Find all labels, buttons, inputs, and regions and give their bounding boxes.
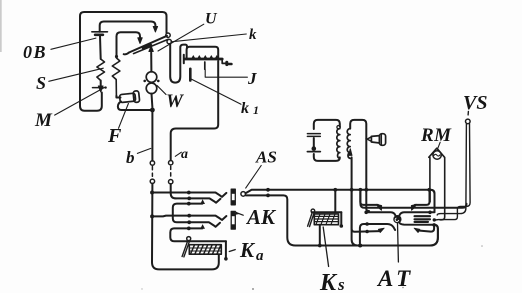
svg-text:RM: RM: [420, 125, 452, 146]
svg-text:M: M: [34, 110, 53, 131]
svg-text:0B: 0B: [23, 42, 47, 62]
svg-text:K: K: [239, 238, 256, 262]
svg-text:F: F: [107, 125, 122, 147]
svg-text:k: k: [241, 100, 249, 117]
svg-text:W: W: [166, 91, 184, 112]
svg-text:AS: AS: [255, 148, 277, 167]
svg-text:S: S: [36, 73, 46, 93]
svg-text:k: k: [249, 27, 257, 43]
svg-text:VS: VS: [463, 92, 487, 114]
svg-text:s: s: [337, 275, 345, 293]
svg-text:a: a: [181, 147, 188, 162]
svg-text:U: U: [205, 11, 218, 28]
svg-text:a: a: [256, 248, 264, 264]
svg-text:AT: AT: [376, 266, 414, 291]
svg-text:b: b: [126, 148, 135, 167]
svg-text:J: J: [247, 69, 257, 88]
svg-text:K: K: [319, 270, 338, 293]
svg-text:AK: AK: [245, 205, 277, 229]
svg-text:1: 1: [253, 103, 259, 117]
